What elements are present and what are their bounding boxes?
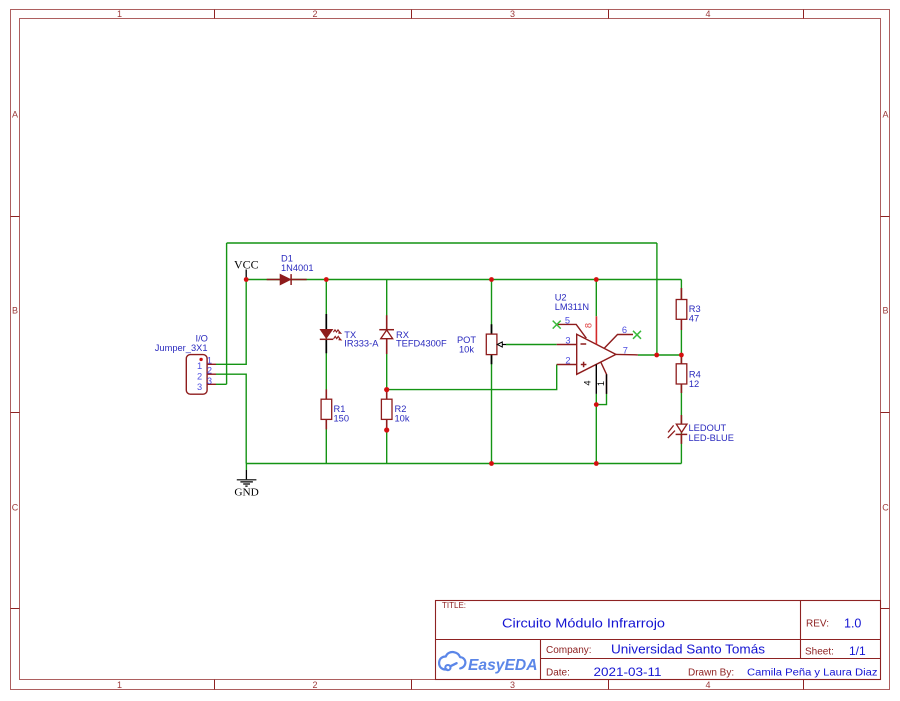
svg-text:150: 150 [334,413,350,423]
LED LEDOUT LED-BLUE [668,415,734,444]
svg-text:1/1: 1/1 [849,644,866,658]
wire POT branch [491,280,493,464]
svg-text:Camila Peña y Laura Diaz: Camila Peña y Laura Diaz [747,668,878,679]
wire jumper pin1 to VCC [216,280,246,365]
svg-text:LM311N: LM311N [555,302,589,312]
pin 4 V- [595,364,597,394]
svg-text:2: 2 [312,680,317,690]
svg-text:2: 2 [197,372,202,382]
wire R3 bottom to output node [680,330,682,355]
svg-text:EasyEDA: EasyEDA [468,657,538,674]
svg-text:3: 3 [565,336,570,346]
ground GND [234,470,259,499]
svg-text:1: 1 [117,9,122,19]
wire opamp gnd pins to rail [595,394,597,464]
wire POT wiper to opamp pin3 [506,344,557,346]
svg-text:1: 1 [117,680,122,690]
transmitter LED TX IR333-A [320,314,379,353]
svg-text:I/O: I/O [195,334,207,344]
svg-text:1.0: 1.0 [844,617,861,631]
svg-text:1: 1 [197,361,202,371]
svg-text:2: 2 [312,9,317,19]
wire RX node to opamp pin2 [387,365,557,390]
svg-text:U2: U2 [555,293,567,303]
TITLE BLOCK [436,601,881,680]
svg-text:Jumper_3X1: Jumper_3X1 [155,343,208,353]
wire R4 to LED to ground rail [680,355,682,464]
svg-text:TEFD4300F: TEFD4300F [396,339,447,349]
wire rail to R3 [680,280,682,300]
node POT rail junction [489,277,494,282]
node output junction [654,353,659,358]
svg-text:3: 3 [510,9,515,19]
pin 8 V+ [595,316,597,344]
svg-text:REV:: REV: [806,619,829,630]
node TX rail junction [324,277,329,282]
node pin8 rail junction [594,277,599,282]
svg-text:7: 7 [623,345,628,355]
svg-text:2: 2 [565,356,570,366]
resistor R1 150 [321,389,349,429]
svg-text:B: B [12,306,18,316]
node RX-R2 junction [384,387,389,392]
pin 3 inverting input [557,344,577,346]
svg-text:C: C [882,503,889,513]
svg-text:Date:: Date: [546,667,570,678]
pin 7 output [616,353,638,356]
op-amp U2 LM311N [553,293,641,394]
svg-text:4: 4 [705,680,710,690]
svg-text:1: 1 [596,381,606,386]
node opamp gnd junction [594,402,599,407]
svg-text:Circuito Módulo Infrarrojo: Circuito Módulo Infrarrojo [502,616,665,631]
pin 1 ground [601,363,607,394]
node R3-R4 junction [679,353,684,358]
wire loop left vertical to pin3 [226,243,228,384]
pin 3 [207,383,216,385]
svg-text:B: B [882,306,888,316]
svg-text:4: 4 [705,9,710,19]
svg-text:8: 8 [584,323,594,328]
svg-text:TITLE:: TITLE: [442,601,466,610]
svg-text:5: 5 [565,315,570,325]
svg-text:IR333-A: IR333-A [344,339,379,349]
pin 6 balance/strobe [605,335,634,349]
junction dots [244,277,684,466]
svg-text:A: A [12,110,18,120]
wire VCC rail [246,279,681,281]
pin 2 [207,373,216,375]
svg-text:GND: GND [234,488,259,499]
wire RX branch [386,280,388,464]
potentiometer POT 10k [457,324,506,364]
svg-text:1: 1 [207,355,212,365]
logo EasyEDA [439,652,537,674]
pin 1 marker dot [199,358,202,361]
svg-text:Company:: Company: [546,645,592,656]
pin 2 non-inverting input [557,364,577,366]
photodiode RX TEFD4300F [379,315,447,354]
svg-text:Sheet:: Sheet: [805,646,834,657]
svg-text:3: 3 [197,382,202,392]
svg-text:4: 4 [583,380,593,385]
svg-text:2: 2 [207,366,212,376]
svg-text:Universidad Santo Tomás: Universidad Santo Tomás [611,642,765,656]
node POT ground junction [489,461,494,466]
wire opamp output [638,354,682,356]
svg-text:2021-03-11: 2021-03-11 [594,665,662,679]
svg-text:1N4001: 1N4001 [281,263,314,273]
wire ground rail [246,463,681,465]
node VCC [234,260,259,280]
svg-text:12: 12 [689,379,699,389]
svg-text:3: 3 [510,680,515,690]
resistor R2 10k [381,390,409,430]
wire GND stub [245,464,247,471]
svg-text:10k: 10k [395,413,410,423]
node opamp ground rail junction [594,461,599,466]
resistor R4 12 [676,355,701,393]
connector I/O Jumper_3X1 [155,334,216,395]
svg-text:LEDOUT: LEDOUT [689,423,727,433]
svg-text:Drawn By:: Drawn By: [688,667,734,678]
pin 1 [207,363,216,365]
wire opamp pin1 jog [596,394,606,405]
wire output loop top [227,242,657,244]
svg-text:47: 47 [689,313,699,323]
wire TX branch [325,280,327,464]
node VCC junction [244,277,249,282]
wire jumper pin2 to ground rail [216,374,246,463]
svg-text:C: C [12,503,19,513]
svg-text:10k: 10k [459,344,474,354]
WIRES [216,243,681,470]
wire jumper pin3 stub [216,383,227,385]
svg-text:LED-BLUE: LED-BLUE [689,433,734,443]
wire opamp pin8 branch [595,280,597,317]
svg-text:6: 6 [622,325,627,335]
pin 5 balance [558,324,587,338]
svg-text:3: 3 [207,376,212,386]
wire loop right vertical to output node [656,243,658,355]
resistor R3 47 [676,288,700,330]
node R2 bottom junction [384,427,389,432]
svg-text:A: A [882,110,888,120]
diode D1 1N4001 [267,254,314,285]
